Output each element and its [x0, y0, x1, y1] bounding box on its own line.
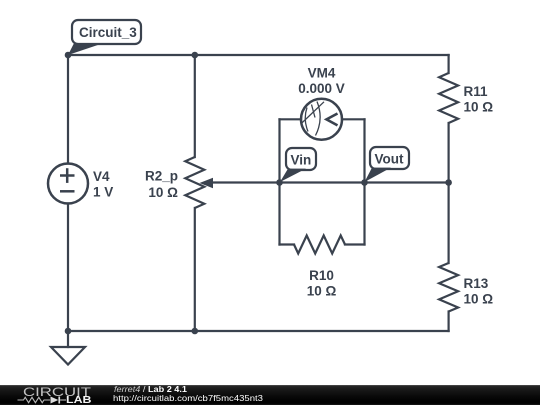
- resistor R11 zigzag: [439, 73, 458, 123]
- junction bottom R2_p: [192, 328, 199, 335]
- wire R13 bottom lead: [448, 312, 450, 332]
- wire ground stub: [67, 331, 69, 347]
- junction top-left: [65, 52, 72, 59]
- junction top R2_p: [192, 52, 199, 59]
- footer title text: [113, 385, 263, 403]
- ground: [51, 347, 85, 365]
- svg-text:R2_p: R2_p: [145, 169, 178, 184]
- CircuitLab footer bar: [0, 385, 540, 405]
- svg-text:10 Ω: 10 Ω: [148, 185, 178, 200]
- node label Vout: [365, 147, 410, 182]
- svg-text:R10: R10: [309, 268, 334, 283]
- junction node Vin: [276, 179, 283, 186]
- V4 value label: [93, 169, 113, 200]
- svg-text:R11: R11: [464, 84, 489, 99]
- junction right rail: [445, 179, 452, 186]
- node label Vin: [280, 148, 316, 182]
- svg-text:10 Ω: 10 Ω: [307, 284, 337, 299]
- R13 value label: [464, 276, 494, 307]
- wire bottom rail: [68, 330, 449, 332]
- svg-text:LAB: LAB: [66, 395, 92, 405]
- voltage source V4: [48, 164, 88, 204]
- R2_p value label: [145, 169, 178, 201]
- wire left rail lower: [67, 204, 69, 332]
- CircuitLab logo wordmark: [18, 385, 92, 405]
- potentiometer R2_p wiper arrow: [200, 178, 214, 189]
- R10 value label: [307, 268, 337, 299]
- resistor R13 zigzag: [439, 263, 458, 312]
- wire top rail: [68, 54, 449, 56]
- resistor R10 zigzag: [294, 236, 345, 254]
- potentiometer R2_p zigzag: [185, 157, 204, 208]
- wire R2_p top lead: [194, 55, 196, 157]
- svg-text:Circuit_3: Circuit_3: [79, 25, 137, 40]
- wire voltmeter right lead: [342, 118, 365, 120]
- svg-text:10 Ω: 10 Ω: [464, 292, 494, 307]
- wire R13 top lead: [448, 183, 450, 264]
- wire middle (wiper to right rail): [213, 181, 449, 183]
- wire R10 left lead: [280, 243, 295, 245]
- svg-text:http://circuitlab.com/cb7f5mc4: http://circuitlab.com/cb7f5mc435nt3: [113, 393, 263, 403]
- wire Vout vertical: [363, 119, 365, 244]
- wire R10 right lead: [345, 243, 365, 245]
- R11 value label: [464, 84, 494, 115]
- svg-text:Vout: Vout: [375, 152, 404, 167]
- svg-text:0.000 V: 0.000 V: [298, 81, 345, 96]
- voltmeter VM4: [301, 99, 342, 140]
- wire R11 bottom lead: [448, 123, 450, 183]
- svg-text:R13: R13: [464, 276, 489, 291]
- node label Circuit_3: [68, 20, 141, 55]
- wire R11 top lead: [448, 55, 450, 73]
- svg-text:VM4: VM4: [308, 66, 336, 81]
- svg-text:V4: V4: [93, 169, 110, 184]
- svg-text:Vin: Vin: [291, 153, 312, 168]
- wire R2_p bottom lead: [194, 208, 196, 331]
- VM4 value label: [298, 66, 345, 97]
- svg-text:10 Ω: 10 Ω: [464, 100, 494, 115]
- junction node Vout: [361, 179, 368, 186]
- svg-text:1 V: 1 V: [93, 185, 113, 200]
- junction bottom-left: [65, 328, 72, 335]
- wire left rail upper: [67, 55, 69, 164]
- wire voltmeter left lead: [280, 118, 302, 120]
- wire Vin vertical: [278, 119, 280, 244]
